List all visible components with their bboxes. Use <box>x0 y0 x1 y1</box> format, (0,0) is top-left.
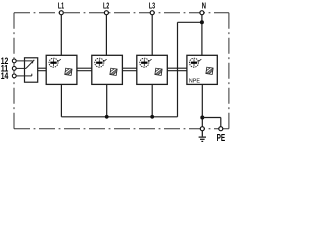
wire L2 down <box>105 13 107 56</box>
SPD module NPE box <box>187 55 217 84</box>
svg-text:L2: L2 <box>103 0 109 10</box>
wire N riser <box>177 22 179 117</box>
wire PE drop <box>220 118 222 129</box>
enclosure dash-dot border top <box>14 12 229 14</box>
module3 element icon <box>140 58 152 67</box>
svg-text:N: N <box>202 0 206 10</box>
svg-text:L3: L3 <box>149 0 155 10</box>
svg-text:L1: L1 <box>58 0 64 10</box>
node N junction <box>200 20 204 24</box>
contact 14 fixed hook <box>31 74 33 76</box>
wire module2 bottom <box>106 84 108 116</box>
module2 hatched square <box>110 68 117 75</box>
wire N junction to NPE module <box>201 22 203 55</box>
moduleNPE hatched square <box>206 67 213 74</box>
wire N branch horizontal <box>178 21 202 23</box>
node bus module3 <box>150 115 154 119</box>
contact 11 lead <box>16 67 26 69</box>
gang link module1-module2 <box>77 68 92 71</box>
node bus module2 <box>105 115 109 119</box>
wire N collecting bus <box>61 116 177 118</box>
module1 hatched square <box>65 68 72 75</box>
gang link switchbox-module1 <box>38 68 47 71</box>
SPD module 1 box <box>46 55 77 84</box>
wire L1 down <box>60 13 62 56</box>
enclosure dash-dot border right <box>228 13 230 129</box>
wire L3 down <box>151 13 153 56</box>
terminal earth <box>200 127 204 131</box>
enclosure dash-dot border left <box>13 13 15 129</box>
terminal L1 <box>59 11 63 15</box>
terminal N <box>200 11 204 15</box>
contact blade <box>26 60 34 69</box>
svg-text:NPE: NPE <box>189 78 200 84</box>
gang link module2-module3 <box>122 68 136 71</box>
wire NPE module bottom <box>201 84 203 128</box>
ground symbol <box>199 131 206 142</box>
terminal PE <box>219 127 223 131</box>
terminal 14 <box>12 74 16 78</box>
node NPE earth junction <box>200 116 204 120</box>
wire N down to junction <box>201 13 203 23</box>
enclosure dash-dot border bottom <box>14 128 229 130</box>
SPD module 2 box <box>92 55 123 84</box>
terminal 11 <box>12 67 16 71</box>
terminal L3 <box>150 11 154 15</box>
contact 14 lead <box>16 75 32 77</box>
moduleNPE element icon <box>190 58 202 67</box>
module3 hatched square <box>155 68 162 75</box>
wire module1 bottom <box>60 84 62 116</box>
svg-text:PE: PE <box>217 133 226 144</box>
module1 element icon <box>49 58 61 67</box>
svg-text:14: 14 <box>1 71 9 81</box>
terminal L2 <box>104 11 108 15</box>
module2 element icon <box>95 58 107 67</box>
contact 12 lead <box>16 60 33 62</box>
terminal 12 <box>12 59 16 63</box>
wire earth to PE branch <box>202 117 221 119</box>
gang link module3-moduleNPE <box>167 68 187 71</box>
SPD module 3 box <box>137 55 168 84</box>
wire module3 bottom <box>151 84 153 116</box>
remote contact box <box>25 58 38 82</box>
contact 12 fixed hook <box>32 61 34 63</box>
